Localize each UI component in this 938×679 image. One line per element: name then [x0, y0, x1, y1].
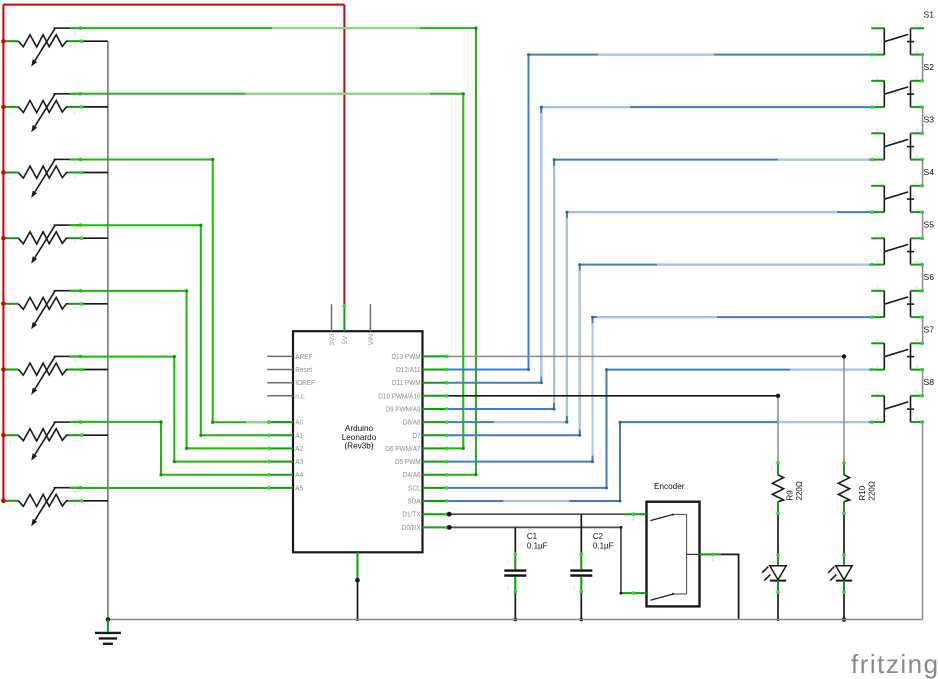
svg-text:1: 1	[9, 308, 11, 312]
U1 left pin A3	[267, 461, 293, 463]
svg-text:3: 3	[74, 162, 76, 166]
svg-text:D0/RX: D0/RX	[402, 525, 421, 532]
svg-text:5V: 5V	[342, 335, 349, 344]
svg-text:R10: R10	[858, 485, 867, 500]
wire U1 GND to ground bus	[357, 580, 359, 619]
wire R5 wiper to A2	[70, 291, 267, 449]
wire U1 SCL to switch S7	[449, 370, 872, 488]
svg-text:2: 2	[916, 417, 918, 421]
svg-text:R9: R9	[786, 490, 795, 501]
svg-text:2: 2	[916, 233, 918, 237]
svg-text:C1: C1	[527, 532, 538, 541]
svg-text:2: 2	[916, 364, 918, 368]
svg-text:SCL: SCL	[408, 485, 421, 492]
wire encoder pin C to ground bus	[721, 554, 739, 619]
U1 left pin A5	[267, 487, 293, 489]
svg-text:2: 2	[916, 23, 918, 27]
switch S6 pushbutton	[870, 289, 924, 319]
LED LED1	[761, 553, 786, 594]
U1 right pin D1/TX	[423, 513, 449, 515]
wire LED2 resistor to LED	[843, 515, 845, 554]
wire R4 wiper to A1	[70, 225, 267, 435]
junction dot 5V bus / R2 pin1	[1, 105, 6, 110]
junction dot R9 column on ground bus	[777, 618, 780, 621]
svg-text:1: 1	[9, 243, 11, 247]
wire chain S5 to S6	[922, 265, 924, 291]
svg-text:1: 1	[877, 154, 879, 158]
svg-text:2: 2	[573, 586, 575, 590]
wire U1 D0/RX to encoder pin B	[449, 527, 624, 593]
potentiometer R1	[5, 26, 84, 66]
svg-text:2: 2	[916, 128, 918, 132]
svg-text:C2: C2	[593, 532, 604, 541]
svg-text:2: 2	[507, 586, 509, 590]
svg-text:3: 3	[74, 228, 76, 232]
U1 top pin 5V	[343, 304, 345, 331]
switch S2 pushbutton	[870, 79, 924, 109]
svg-text:1: 1	[877, 207, 879, 211]
svg-text:2: 2	[916, 102, 918, 106]
wire U1 D11 PWM to switch S2	[449, 107, 872, 383]
bendpoint dots S4 wire	[565, 421, 568, 424]
junction dot on D1/TX wire	[447, 512, 452, 517]
wire R2 pin3 to GND bus	[83, 106, 108, 108]
svg-text:1: 1	[9, 440, 11, 444]
potentiometer R7	[5, 420, 84, 460]
svg-text:1: 1	[9, 111, 11, 115]
svg-text:220Ω: 220Ω	[795, 481, 804, 500]
wire LED LED2 to ground bus	[843, 594, 845, 620]
svg-text:1: 1	[507, 560, 509, 564]
svg-text:A1: A1	[295, 433, 303, 440]
svg-text:3: 3	[74, 97, 76, 101]
U1 top pin 3V3	[331, 304, 333, 331]
wire U1 SDA to switch S8	[449, 422, 872, 501]
svg-text:n.c.: n.c.	[295, 393, 305, 400]
svg-text:3: 3	[74, 359, 76, 363]
switch S4 pushbutton	[870, 184, 924, 214]
wire to ground symbol	[107, 620, 109, 632]
switch S5 pushbutton	[870, 237, 924, 267]
U1 right pin D12/A11	[423, 369, 449, 371]
svg-text:A2: A2	[295, 446, 303, 453]
svg-text:1: 1	[877, 259, 879, 263]
svg-text:2: 2	[74, 438, 76, 442]
svg-text:D6 PWM/A7: D6 PWM/A7	[385, 446, 421, 453]
svg-text:S3: S3	[924, 114, 935, 124]
svg-text:S4: S4	[924, 167, 935, 177]
svg-text:1: 1	[9, 505, 11, 509]
svg-text:D13 PWM: D13 PWM	[391, 354, 420, 361]
svg-text:2: 2	[74, 241, 76, 245]
svg-text:220Ω: 220Ω	[868, 481, 877, 500]
svg-text:VIN: VIN	[368, 334, 375, 345]
svg-text:5: 5	[712, 558, 714, 562]
junction dot 5V bus / R1 pin1	[1, 39, 6, 44]
svg-text:S1: S1	[924, 9, 935, 19]
U1 left pin A2	[267, 447, 293, 449]
U1 left pin n.c.	[267, 395, 293, 397]
wire U1 D12/A11 to switch S1	[449, 55, 872, 370]
svg-text:SDA: SDA	[407, 498, 421, 505]
svg-text:1: 1	[877, 391, 879, 395]
svg-text:2: 2	[74, 307, 76, 311]
wire R8 wiper to A5	[70, 487, 267, 489]
junction dot R10 column on ground bus	[842, 617, 847, 622]
switch S3 pushbutton	[870, 132, 924, 162]
U1 left pin A1	[267, 434, 293, 436]
wire R1 pin3 to GND bus	[83, 40, 108, 42]
svg-text:D10 PWM/A10: D10 PWM/A10	[378, 393, 421, 400]
svg-text:2: 2	[916, 338, 918, 342]
bendpoint dots wire R3 wiper to A0	[211, 158, 214, 161]
svg-text:2: 2	[74, 176, 76, 180]
encoder pin C stub	[700, 553, 722, 555]
svg-text:2: 2	[74, 504, 76, 508]
U1 top pin VIN	[369, 304, 371, 331]
svg-text:1: 1	[771, 507, 773, 511]
svg-text:1: 1	[877, 102, 879, 106]
svg-text:IOREF: IOREF	[295, 380, 315, 387]
svg-text:0.1µF: 0.1µF	[593, 542, 614, 551]
svg-text:D9 PWM/A9: D9 PWM/A9	[385, 406, 421, 413]
svg-text:2: 2	[916, 49, 918, 53]
U1 right pin D8/A8	[423, 421, 449, 423]
bendpoint dots wire R5 wiper to A2	[185, 289, 188, 292]
junction dot 5V bus / R7 pin1	[1, 433, 6, 438]
svg-text:2: 2	[916, 76, 918, 80]
junction dot 5V bus / R3 pin1	[1, 170, 6, 175]
svg-text:D5 PWM: D5 PWM	[395, 459, 421, 466]
svg-text:1: 1	[837, 507, 839, 511]
bendpoint dots S3 wire	[553, 408, 556, 411]
wire LED1 resistor to LED	[777, 515, 779, 554]
svg-text:1: 1	[877, 286, 879, 290]
bendpoint dots wire R6 wiper to A3	[173, 355, 176, 358]
svg-text:1: 1	[877, 23, 879, 27]
svg-text:3: 3	[74, 31, 76, 35]
svg-text:1: 1	[877, 364, 879, 368]
svg-text:1: 1	[9, 374, 11, 378]
svg-text:S7: S7	[924, 324, 935, 334]
svg-text:2: 2	[74, 373, 76, 377]
net 5V red bus vertical (left edge)	[2, 5, 4, 502]
U1 right pin D11 PWM	[423, 382, 449, 384]
svg-text:2: 2	[916, 181, 918, 185]
wire R2 wiper to D6 PWM/A7	[70, 94, 463, 449]
wire C2 top	[580, 514, 582, 553]
wire R8 pin3 to GND bus	[83, 500, 108, 502]
svg-text:A3: A3	[295, 459, 303, 466]
wire R3 wiper to A0	[70, 160, 267, 423]
U1 right pin D9 PWM/A9	[423, 408, 449, 410]
junction dot D10 wire corner	[776, 394, 780, 398]
svg-text:A5: A5	[295, 485, 303, 492]
svg-text:AREF: AREF	[295, 354, 312, 361]
U1 right pin D5 PWM	[423, 461, 449, 463]
wire chain S3 to S4	[922, 160, 924, 186]
wire C1 top	[514, 527, 516, 552]
svg-text:1: 1	[877, 312, 879, 316]
svg-text:A0: A0	[295, 419, 303, 426]
wire 5V down to Arduino 5V pin	[343, 5, 345, 305]
svg-text:fritzing: fritzing	[851, 649, 938, 679]
wire R5 pin3 to GND bus	[83, 303, 108, 305]
wire C1 to ground bus	[514, 593, 516, 619]
encoder ENC1 body	[647, 502, 700, 607]
svg-text:2: 2	[771, 467, 773, 471]
svg-text:Reset: Reset	[295, 367, 312, 374]
switch S7 pushbutton	[870, 342, 924, 372]
wire 5V bus top horizontal	[3, 4, 344, 6]
svg-text:3: 3	[74, 294, 76, 298]
bendpoint dots wire R2 wiper to D6 PWM/A7	[462, 92, 465, 95]
potentiometer R4	[5, 223, 84, 263]
junction dot C1 ground	[513, 618, 517, 622]
svg-text:2: 2	[74, 44, 76, 48]
svg-text:2: 2	[916, 207, 918, 211]
wire R6 pin3 to GND bus	[83, 369, 108, 371]
U1 left pin Reset	[267, 369, 293, 371]
wire R7 pin3 to GND bus	[83, 434, 108, 436]
net GND horizontal bus	[108, 619, 923, 621]
U1 bottom pin GND	[357, 552, 359, 580]
bendpoint dots S6 wire	[591, 460, 594, 463]
svg-text:A4: A4	[295, 472, 303, 479]
svg-text:3: 3	[74, 491, 76, 495]
svg-text:(Rev3b): (Rev3b)	[344, 442, 373, 451]
svg-text:1: 1	[877, 49, 879, 53]
ground symbol	[95, 633, 121, 644]
svg-text:1: 1	[877, 417, 879, 421]
wire R1 wiper to D4/A6	[70, 28, 476, 475]
wire chain S4 to S5	[922, 212, 924, 238]
junction dot 5V bus / R4 pin1	[1, 236, 6, 241]
svg-text:Encoder: Encoder	[654, 482, 685, 491]
svg-text:3V3: 3V3	[329, 333, 336, 345]
bendpoint dots S2 wire	[540, 381, 543, 384]
svg-text:S2: S2	[924, 62, 935, 72]
LED LED2	[827, 553, 852, 594]
svg-text:2: 2	[916, 312, 918, 316]
svg-text:1: 1	[633, 597, 635, 601]
U1 right pin SDA	[423, 500, 449, 502]
svg-text:2: 2	[916, 259, 918, 263]
U1 right pin D13 PWM	[423, 355, 449, 357]
bendpoint dots S8 wire	[619, 500, 622, 503]
svg-text:3: 3	[74, 425, 76, 429]
svg-text:S8: S8	[924, 377, 935, 387]
U1 left pin A0	[267, 421, 293, 423]
potentiometer R8	[5, 486, 84, 526]
wire U1 D1/TX to encoder pin A	[449, 513, 624, 515]
svg-text:1: 1	[877, 338, 879, 342]
wire U1 D7 to switch S5	[449, 265, 872, 436]
svg-text:0.1µF: 0.1µF	[527, 542, 548, 551]
bendpoint dots wire R7 wiper to A4	[159, 420, 162, 423]
svg-text:D11 PWM: D11 PWM	[392, 380, 421, 387]
wire R3 pin3 to GND bus	[83, 172, 108, 174]
junction dot 5V bus / R8 pin1	[1, 499, 6, 504]
svg-text:Arduino: Arduino	[345, 424, 374, 433]
wire C2 to ground bus	[580, 593, 582, 619]
svg-text:S6: S6	[924, 272, 935, 282]
wire LED LED1 to ground bus	[777, 594, 779, 620]
junction dot D13 wire corner	[842, 354, 846, 358]
svg-text:D4/A6: D4/A6	[403, 472, 421, 479]
wire R4 pin3 to GND bus	[83, 237, 108, 239]
wire chain S2 to S3	[922, 107, 924, 133]
resistor R9	[772, 461, 783, 515]
wire U1 D9 PWM/A9 to switch S3	[449, 160, 872, 409]
resistor R10	[838, 461, 849, 515]
junction dot 5V bus / R6 pin1	[1, 367, 6, 372]
U1 left pin A4	[267, 474, 293, 476]
wire S8 to ground bus	[922, 422, 924, 619]
bendpoint dots S7 wire	[605, 486, 608, 489]
svg-text:2: 2	[74, 110, 76, 114]
potentiometer R2	[5, 92, 84, 132]
U1 left pin AREF	[267, 355, 293, 357]
junction dot C2 ground	[579, 618, 583, 622]
U1 right pin D4/A6	[423, 474, 449, 476]
U1 right pin D10 PWM/A10	[423, 395, 449, 397]
U1 right pin D6 PWM/A7	[423, 447, 449, 449]
potentiometer R6	[5, 355, 84, 395]
svg-text:1: 1	[877, 181, 879, 185]
capacitor C2 0.1µF	[570, 553, 592, 594]
bendpoint dots wire R4 wiper to A1	[199, 224, 202, 227]
svg-text:2: 2	[916, 286, 918, 290]
junction U1 GND wire	[355, 578, 360, 583]
potentiometer R3	[5, 158, 84, 198]
svg-text:1: 1	[573, 560, 575, 564]
wire R7 wiper to A4	[70, 422, 267, 475]
wire chain S1 to S2	[922, 55, 924, 81]
svg-text:2: 2	[837, 467, 839, 471]
svg-text:2: 2	[916, 154, 918, 158]
wire U1 D10 to R9	[449, 395, 779, 397]
wire U1 D5 PWM to switch S6	[449, 317, 872, 462]
encoder pin B stub	[624, 592, 647, 594]
wire chain S7 to S8	[922, 370, 924, 396]
bendpoint dots S5 wire	[578, 434, 581, 437]
svg-text:D7: D7	[412, 433, 420, 440]
svg-text:D12/A11: D12/A11	[396, 367, 421, 374]
svg-text:2: 2	[916, 391, 918, 395]
wire R6 wiper to A3	[70, 357, 267, 462]
junction dot on D0/RX wire	[447, 525, 452, 530]
svg-text:1: 1	[9, 177, 11, 181]
svg-text:S5: S5	[924, 219, 935, 229]
switch S8 pushbutton	[870, 394, 924, 424]
junction dot 5V bus / R5 pin1	[1, 302, 6, 307]
net GND right-of-pots vertical bus	[107, 41, 109, 619]
svg-text:D8/A8: D8/A8	[403, 419, 421, 426]
svg-text:1: 1	[877, 128, 879, 132]
svg-text:D1/TX: D1/TX	[402, 512, 421, 519]
wire U1 D8/A8 to switch S4	[449, 212, 872, 422]
junction dot GND bus left	[106, 617, 111, 622]
op-amp U1 Arduino Leonardo (Rev3b) body	[293, 331, 423, 552]
U1 right pin D0/RX	[423, 526, 449, 528]
bendpoint dots S1 wire	[527, 368, 530, 371]
potentiometer R5	[5, 289, 84, 329]
encoder pin A stub	[624, 513, 647, 515]
U1 right pin SCL	[423, 487, 449, 489]
U1 right pin D7	[423, 434, 449, 436]
wire U1 D13 PWM to R10	[449, 356, 845, 461]
switch S1 pushbutton	[870, 28, 924, 56]
svg-text:4: 4	[633, 518, 635, 522]
bendpoint dots wire R1 wiper to D4/A6	[474, 27, 477, 30]
encoder internal contacts	[650, 514, 699, 601]
svg-text:1: 1	[9, 46, 11, 50]
capacitor C1 0.1µF	[504, 553, 526, 594]
svg-text:Leonardo: Leonardo	[342, 433, 377, 442]
svg-text:1: 1	[877, 76, 879, 80]
U1 left pin IOREF	[267, 382, 293, 384]
wire chain S6 to S7	[922, 317, 924, 343]
svg-text:1: 1	[877, 233, 879, 237]
